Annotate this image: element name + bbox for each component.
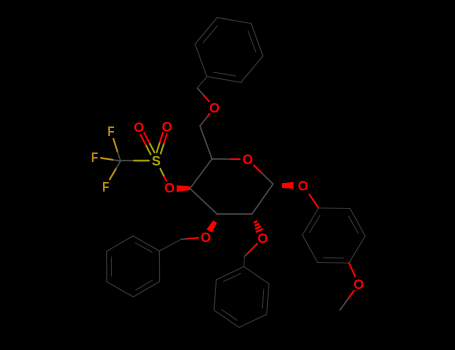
wire CH2-phenyl ipso (left benzyl) [159,239,181,251]
wire C5-O5 gray half [212,158,231,160]
wire F1-C amber part [113,139,117,152]
wire O2-CH2 red half [248,244,258,254]
wire O3-CH2 gray half [181,238,187,241]
wire CF3C-S olive half [134,160,149,162]
wire O-CH3 red half [348,291,354,299]
wire O2-CH2 gray half [245,253,248,256]
svg-text:O: O [258,231,269,246]
wire CF3C-S gray half [121,160,135,162]
benzene ring (top benzyl) [195,44,207,76]
wire O3-CH2 red half [187,238,198,239]
svg-text:F: F [91,149,98,165]
S=O double bond right [157,142,160,153]
svg-text:O: O [243,152,254,167]
svg-text:O: O [164,180,175,195]
benzene ring (4-methoxyphenyl) [319,207,350,210]
svg-text:O: O [134,120,145,135]
svg-text:O: O [353,277,364,292]
wire C5-O5 red half [231,158,240,160]
hashed wedge C2-O2 [254,221,258,223]
svg-text:O: O [298,178,309,193]
wire F3-C gray part [116,161,120,168]
wire CH2-phenyl ipso (bottom benzyl) [243,257,246,267]
wire O4-S olive half [160,169,163,176]
svg-text:F: F [108,123,115,139]
wire O6-CH2 gray half [197,88,203,95]
svg-text:O: O [209,101,220,116]
wire C6-O6 gray half [200,117,207,126]
svg-text:S: S [152,154,161,169]
bold wedge C1-O1 [282,182,294,189]
svg-text:O: O [201,230,212,245]
S=O double bond left [146,145,151,155]
wire F2-C gray part [113,160,120,161]
wire C6-O6 red half [207,114,209,117]
bold wedge C4-O4 [177,185,191,192]
wire O6-CH2 red half [203,95,209,102]
svg-text:O: O [162,119,173,134]
wire C4-C5 [190,159,212,189]
wire C4'-O (methoxy) [349,263,355,277]
wire F3-C amber part [110,168,117,179]
wire C1-C2 [252,184,273,214]
benzene ring (left benzyl) [158,251,160,282]
wire C3-C4 [190,189,217,215]
bold wedge C3-O3 [207,220,217,232]
wire CH2-phenyl ipso (top benzyl) [197,77,207,89]
wire O5-C1 red half [254,165,261,172]
wire O4-S red half [164,176,167,181]
wire F2-C amber part [101,158,113,160]
wire F1-C gray part [118,152,121,161]
wire O1-aryl [309,194,318,208]
wire C5-C6 [200,126,212,159]
wire C2-C3 [217,213,252,215]
wire O-CH3 gray half [340,299,348,310]
svg-text:F: F [102,178,109,194]
wire O5-C1 gray half [261,173,273,185]
benzene ring (bottom benzyl) [244,267,269,284]
